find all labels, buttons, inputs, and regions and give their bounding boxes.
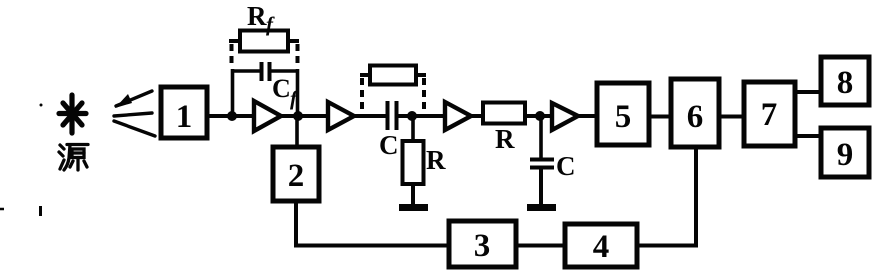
- svg-text:1: 1: [176, 99, 193, 135]
- wire cap to amp3: [397, 114, 447, 118]
- box 2: [273, 147, 319, 201]
- svg-text:R: R: [426, 145, 446, 175]
- wire node D down to capacitor: [539, 116, 543, 158]
- box 6: [671, 79, 719, 147]
- wire box4 up to box6: [637, 147, 696, 246]
- light source star: [59, 95, 86, 133]
- node B: [293, 111, 303, 121]
- wire box3 to box4: [516, 244, 565, 248]
- svg-text:2: 2: [288, 158, 305, 194]
- svg-text:9: 9: [837, 137, 854, 173]
- dashed wire left of Rf: [230, 44, 234, 66]
- stray mark left edge: [0, 208, 4, 211]
- wire box7 to box9: [795, 134, 821, 138]
- svg-text:6: 6: [687, 99, 704, 135]
- svg-text:5: 5: [615, 99, 632, 135]
- svg-text:R: R: [495, 124, 515, 154]
- wire box5 to box6: [649, 115, 671, 119]
- svg-text:8: 8: [837, 65, 854, 101]
- node C: [407, 111, 417, 121]
- light rays into detector: [114, 91, 155, 136]
- op-amp A2: [328, 102, 354, 130]
- ray arrowhead: [115, 94, 132, 108]
- box 9: [821, 128, 869, 177]
- wire node C down to resistor R: [411, 116, 415, 142]
- box 4: [565, 224, 637, 267]
- node A: [227, 111, 237, 121]
- ground: [399, 204, 428, 211]
- dashed wire right of Rf: [296, 44, 300, 66]
- wire amp1 to amp2: [281, 114, 330, 118]
- wire amp3 to resistor R: [471, 114, 484, 118]
- capacitor C (shunt): [530, 160, 554, 168]
- wire box6 to box7: [719, 115, 744, 119]
- op-amp A4: [552, 103, 578, 130]
- wire feedback down to node B: [296, 69, 300, 116]
- resistor R (series): [483, 103, 525, 124]
- svg-text:C: C: [379, 130, 399, 160]
- capacitor Cf: [232, 62, 298, 81]
- wire amp2 to capacitor C: [354, 114, 386, 118]
- wire node B down to box 2: [295, 116, 299, 147]
- stray dot: [40, 104, 43, 107]
- wire amp4 to box 5: [578, 114, 597, 118]
- svg-text:C: C: [272, 74, 291, 103]
- box 1: [161, 87, 207, 138]
- stray tick mark: [39, 206, 42, 216]
- svg-text:7: 7: [761, 97, 778, 133]
- feedback resistor (dashed-connected): [360, 66, 426, 85]
- ground: [527, 204, 556, 211]
- resistor Rf: [229, 31, 299, 52]
- svg-text:3: 3: [474, 228, 491, 264]
- svg-text:4: 4: [593, 229, 610, 265]
- op-amp A3: [445, 102, 471, 130]
- label Rf: [247, 1, 275, 36]
- node D: [535, 111, 545, 121]
- wire box7 to box8: [795, 90, 821, 94]
- box 3: [449, 221, 516, 267]
- box 8: [821, 57, 869, 105]
- dashed wire left of feedback resistor: [360, 78, 364, 113]
- resistor R (vertical): [403, 141, 424, 184]
- wire resistor to ground: [411, 184, 415, 206]
- capacitor C (series): [388, 101, 397, 130]
- dashed wire right of feedback resistor: [422, 78, 426, 113]
- svg-text:C: C: [556, 151, 576, 181]
- op-amp A1: [254, 101, 281, 131]
- box 7: [744, 82, 795, 146]
- wire box1 to amp1: [207, 114, 256, 118]
- label Cf: [272, 74, 299, 110]
- wire resistor to amp4: [525, 114, 554, 118]
- wire node A up to feedback: [231, 69, 235, 116]
- svg-text:R: R: [247, 1, 267, 31]
- box 5: [597, 83, 649, 145]
- label 源 (source): [59, 145, 88, 171]
- wire capacitor to ground: [539, 168, 543, 206]
- wire box2 down and along bottom to box3: [296, 201, 449, 246]
